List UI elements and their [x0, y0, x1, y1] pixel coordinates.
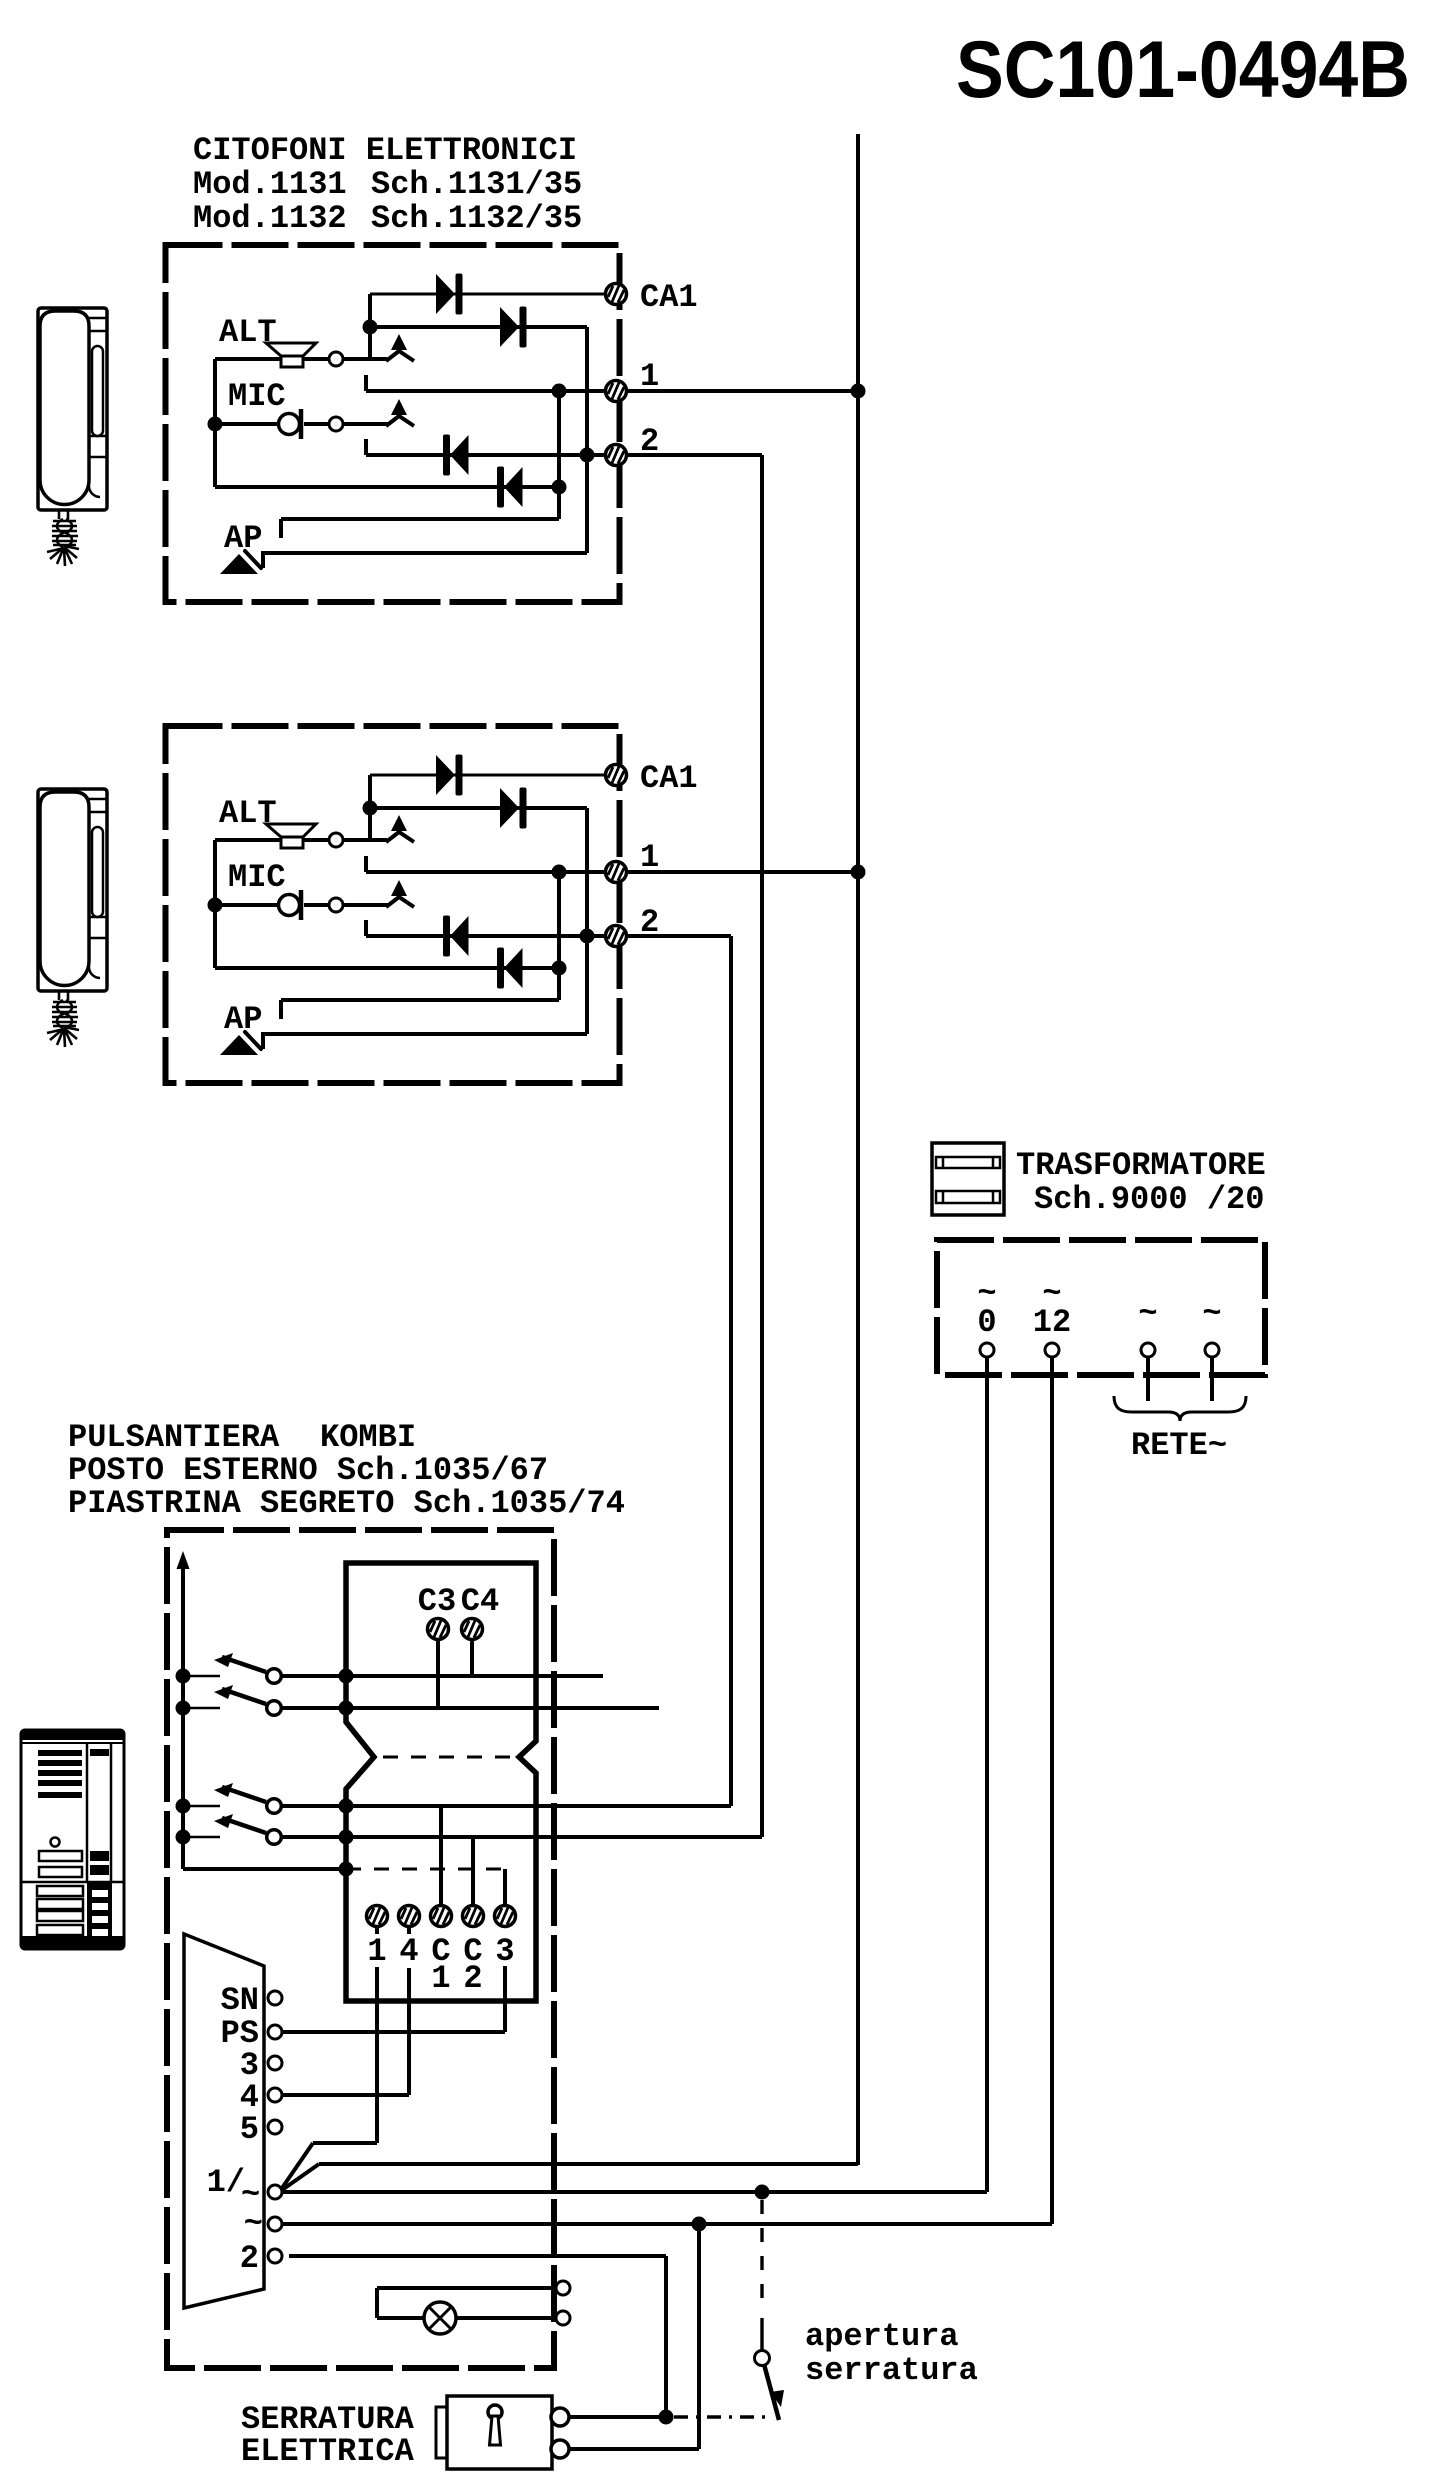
svg-text:C3: C3: [418, 1583, 456, 1620]
svg-text:Mod.1132Sch.1132/35: Mod.1132Sch.1132/35: [193, 200, 582, 237]
svg-text:apertura: apertura: [805, 2318, 959, 2355]
svg-text:~: ~: [1202, 1295, 1221, 1332]
svg-text:~: ~: [244, 2205, 263, 2242]
svg-text:1: 1: [367, 1933, 386, 1970]
svg-text:PIASTRINA SEGRETO Sch.1035/74: PIASTRINA SEGRETO Sch.1035/74: [68, 1485, 625, 1522]
svg-text:TRASFORMATORE: TRASFORMATORE: [1016, 1147, 1266, 1184]
svg-text:2: 2: [240, 2240, 259, 2277]
svg-text:12: 12: [1033, 1304, 1071, 1341]
svg-text:2: 2: [463, 1960, 482, 1997]
svg-text:CITOFONI ELETTRONICI: CITOFONI ELETTRONICI: [193, 132, 577, 169]
svg-text:POSTO ESTERNO Sch.1035/67: POSTO ESTERNO Sch.1035/67: [68, 1452, 548, 1489]
svg-text:CA1: CA1: [640, 279, 698, 316]
svg-text:ELETTRICA: ELETTRICA: [241, 2433, 415, 2470]
svg-text:C4: C4: [461, 1583, 499, 1620]
svg-text:1/: 1/: [207, 2164, 245, 2201]
svg-text:Mod.1131Sch.1131/35: Mod.1131Sch.1131/35: [193, 166, 582, 203]
svg-text:PULSANTIERAKOMBI: PULSANTIERAKOMBI: [68, 1419, 416, 1456]
svg-text:serratura: serratura: [805, 2352, 978, 2389]
svg-text:4: 4: [399, 1933, 418, 1970]
svg-text:5: 5: [240, 2111, 259, 2148]
svg-text:RETE~: RETE~: [1131, 1427, 1227, 1464]
svg-text:0: 0: [977, 1304, 996, 1341]
svg-text:MIC: MIC: [228, 378, 286, 415]
svg-text:1: 1: [431, 1960, 450, 1997]
svg-text:3: 3: [495, 1933, 514, 1970]
svg-text:SN: SN: [221, 1982, 259, 2019]
svg-text:~: ~: [1138, 1295, 1157, 1332]
svg-text:Sch.9000 /20: Sch.9000 /20: [1034, 1181, 1264, 1218]
svg-text:SC101-0494B: SC101-0494B: [956, 25, 1410, 115]
